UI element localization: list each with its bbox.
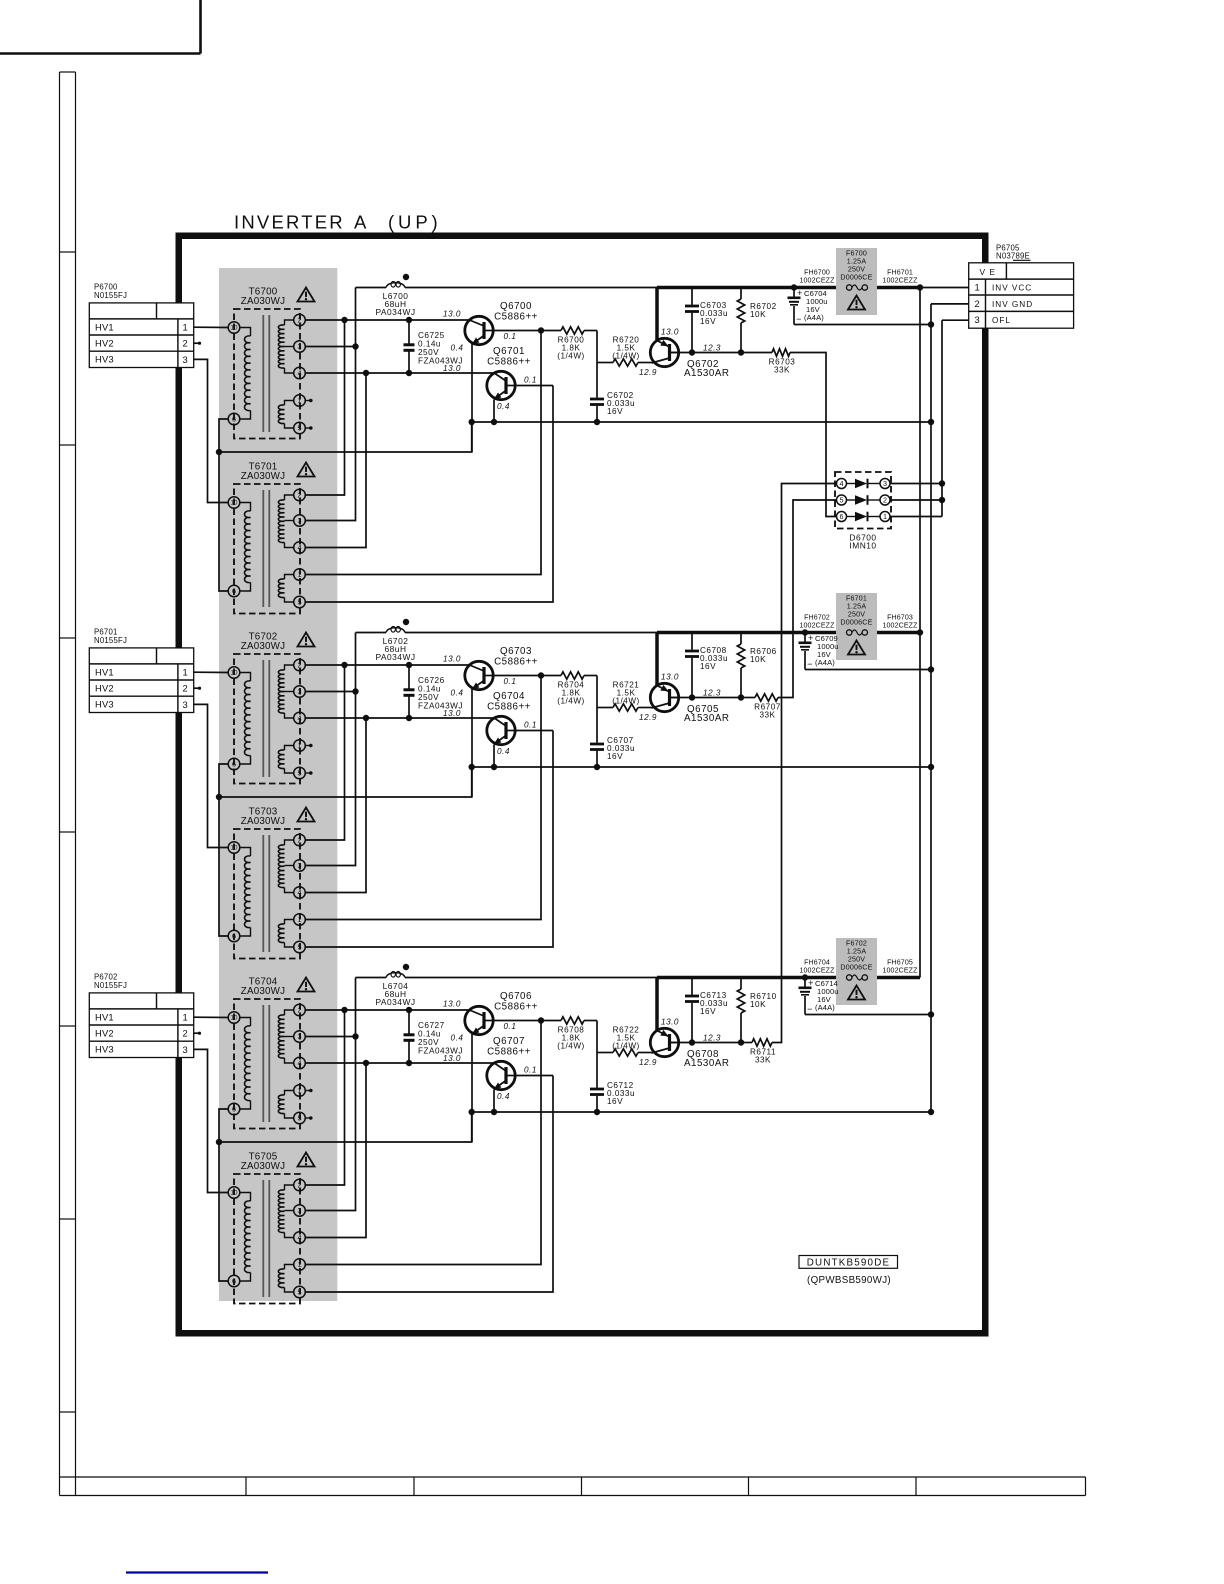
- wire R6707 to D6700.5: [778, 500, 836, 698]
- svg-text:0.4: 0.4: [497, 747, 510, 756]
- wire VCC rail (thick): [657, 631, 920, 635]
- capacitor C6727 0.14u 250V: [404, 1010, 463, 1063]
- T6702 pin 2: [294, 659, 306, 671]
- svg-text:2: 2: [298, 491, 302, 500]
- svg-text:C5886++: C5886++: [494, 1002, 538, 1013]
- wire return row to emitter bus: [219, 1112, 472, 1142]
- svg-text:4: 4: [298, 369, 302, 378]
- D6700 pin 6: [837, 512, 847, 522]
- junction: [406, 715, 412, 721]
- corner reference box (top-left): [0, 0, 201, 54]
- warning symbol near T6702: [298, 633, 315, 647]
- svg-text:1002CEZZ: 1002CEZZ: [882, 967, 918, 975]
- T6702 pin 5: [294, 767, 306, 779]
- wire L6702 input: [356, 632, 387, 634]
- wire T6703.3 riser / L6702 feed: [305, 633, 356, 866]
- svg-text:1: 1: [883, 512, 887, 521]
- svg-text:ZA030WJ: ZA030WJ: [241, 296, 285, 307]
- capacitor C6708 0.033u 16V: [685, 633, 728, 698]
- resistor R6711 33K: [741, 1039, 776, 1065]
- junction: [363, 370, 369, 376]
- T6702 pin 1 stub: [305, 744, 313, 748]
- svg-text:D0006CE: D0006CE: [840, 619, 872, 627]
- transformer T6703 ZA030WJ: [234, 807, 300, 959]
- T6704 pin 5 stub: [305, 1116, 313, 1120]
- wire T6702.6 / T6703.6 common return: [219, 764, 229, 936]
- svg-text:(QPWBSB590WJ): (QPWBSB590WJ): [807, 1275, 891, 1286]
- node dot above inductor: [403, 964, 409, 970]
- svg-text:0.1: 0.1: [504, 677, 517, 686]
- P6700 row HV3 pin 3: [95, 354, 188, 365]
- svg-text:3: 3: [183, 1044, 189, 1055]
- T6704 pin 10: [228, 1012, 240, 1024]
- capacitor C6707 0.033u 16V: [590, 708, 635, 768]
- svg-text:16V: 16V: [607, 1097, 623, 1106]
- T6703 pin 5: [294, 941, 306, 953]
- junction: [363, 715, 369, 721]
- wire T6705.3 riser / L6704 feed: [305, 978, 356, 1211]
- svg-text:3: 3: [298, 687, 302, 696]
- wire pin4 row (T6702.4 to Q6704 base): [305, 717, 494, 719]
- svg-text:HV2: HV2: [95, 1028, 114, 1039]
- wire R6711 to D6700.4: [772, 484, 836, 1043]
- capacitor C6709 1000u 16V (A4A): [799, 633, 839, 670]
- svg-text:V E: V E: [980, 267, 997, 277]
- svg-text:2: 2: [183, 338, 189, 349]
- junction: [928, 321, 934, 327]
- wire VCC rail (thick): [657, 286, 920, 290]
- wire C6709 negative to GND rail: [805, 669, 931, 671]
- junction: [802, 974, 808, 980]
- transistor Q6700 C5886++: [465, 301, 538, 345]
- svg-text:4: 4: [298, 714, 302, 723]
- svg-text:ZA030WJ: ZA030WJ: [241, 1161, 285, 1172]
- wire D6700.1 to OFL rail: [890, 516, 942, 518]
- wire Q6707 emitter to bus: [493, 1090, 495, 1113]
- fuse holder FH6701 1002CEZZ: [882, 269, 918, 285]
- svg-text:13.0: 13.0: [661, 673, 679, 682]
- svg-text:12.9: 12.9: [639, 1058, 657, 1067]
- T6702 pin 5 stub: [305, 771, 313, 775]
- T6700 pin 2: [294, 314, 306, 326]
- T6700 pin 4: [294, 367, 306, 379]
- fuse F6701 1.25A 250V D0006CE: [836, 593, 877, 660]
- svg-text:2: 2: [883, 496, 887, 505]
- svg-text:HV3: HV3: [95, 354, 114, 365]
- D6700 pin 5: [837, 495, 847, 505]
- svg-text:(UP): (UP): [388, 212, 442, 233]
- T6703 core: [263, 835, 269, 952]
- wire VCC rail (thick): [657, 976, 920, 980]
- svg-text:10: 10: [231, 1190, 238, 1197]
- wire OFL rail: [941, 320, 943, 516]
- svg-text:2: 2: [974, 298, 980, 309]
- T6701 pin 1: [294, 569, 306, 581]
- T6705 pin 10: [228, 1187, 240, 1199]
- T6702 core: [263, 660, 269, 777]
- junction: [352, 688, 358, 694]
- svg-text:16V: 16V: [607, 407, 623, 416]
- resistor R6710 10K: [737, 978, 776, 1043]
- svg-text:HV1: HV1: [95, 321, 114, 332]
- junction: [689, 349, 695, 355]
- fuse holder FH6702 1002CEZZ: [799, 614, 835, 630]
- svg-text:1: 1: [298, 915, 302, 924]
- T6704 pin 2: [294, 1004, 306, 1016]
- wire Q6703 emitter to bus: [471, 689, 473, 797]
- svg-text:10K: 10K: [750, 655, 766, 664]
- wire Q6705 base row: [670, 697, 742, 699]
- svg-text:FH6700: FH6700: [804, 269, 830, 277]
- wire INV VCC rail feeding all stages: [919, 288, 921, 978]
- svg-text:5: 5: [298, 1288, 302, 1297]
- svg-text:HV2: HV2: [95, 338, 114, 349]
- svg-text:ZA030WJ: ZA030WJ: [241, 816, 285, 827]
- left margin zone ruler: [60, 72, 76, 1496]
- wire T6705.5 to Q6707 collector: [305, 1076, 553, 1293]
- svg-text:12.9: 12.9: [639, 368, 657, 377]
- wire OFL to P6705.3: [942, 319, 969, 321]
- transformer T6701 ZA030WJ: [234, 462, 300, 614]
- svg-text:Q6703: Q6703: [500, 646, 532, 657]
- T6705 aux winding (pins 1-5): [278, 1265, 293, 1293]
- junction: [594, 764, 600, 770]
- svg-text:(A4A): (A4A): [815, 658, 835, 667]
- T6700 pin 1: [294, 395, 306, 407]
- junction: [469, 1109, 475, 1115]
- T6704 aux winding (pins 1-5): [278, 1091, 293, 1119]
- wire R6703 to D6700.6: [790, 353, 836, 517]
- svg-text:−: −: [807, 1004, 813, 1014]
- svg-text:1002CEZZ: 1002CEZZ: [799, 967, 835, 975]
- svg-text:0.1: 0.1: [504, 1022, 517, 1031]
- wire R6704 to R6721 node: [596, 676, 598, 708]
- wire L6704 output to VCC rail: [405, 977, 657, 979]
- svg-text:0.1: 0.1: [524, 721, 537, 730]
- warning symbol near T6701: [298, 463, 315, 477]
- wire D6700.2 to OFL rail: [890, 499, 942, 501]
- svg-text:10: 10: [231, 325, 238, 332]
- svg-text:1: 1: [298, 396, 302, 405]
- inductor L6702 68uH PA034WJ: [375, 627, 415, 663]
- T6705 pin 5: [294, 1286, 306, 1298]
- T6701 pin 4: [294, 542, 306, 554]
- resistor R6720 1.5K (1/4W): [597, 336, 652, 367]
- wire T6705.1 to Q6706 collector: [305, 1021, 541, 1265]
- T6700 pin 3: [294, 341, 306, 353]
- bottom title-block strip: [60, 1477, 1086, 1496]
- svg-text:10: 10: [231, 1015, 238, 1022]
- node dot above inductor: [403, 619, 409, 625]
- wire P6701.1 HV1 to T6702.10: [194, 671, 229, 673]
- T6703 primary winding: [239, 848, 250, 937]
- junction: [216, 794, 222, 800]
- node dot above inductor: [403, 274, 409, 280]
- svg-text:3: 3: [183, 699, 189, 710]
- junction: [917, 629, 923, 635]
- D6700 pin 3: [880, 479, 890, 489]
- svg-text:13.0: 13.0: [443, 709, 461, 718]
- svg-text:Q6704: Q6704: [493, 691, 525, 702]
- svg-text:1: 1: [298, 1260, 302, 1269]
- transformer T6705 ZA030WJ: [234, 1152, 300, 1304]
- junction: [491, 1109, 497, 1115]
- wire INV GND to P6705.2: [931, 303, 969, 305]
- wire P6702.1 HV1 to T6704.10: [194, 1016, 229, 1018]
- warning symbol near F6700: [848, 296, 865, 310]
- T6705 secondary winding (pins 2-3-4): [278, 1185, 293, 1238]
- svg-text:F6700: F6700: [846, 250, 867, 258]
- junction: [928, 1011, 934, 1017]
- wire emitter/GND bus: [472, 766, 931, 768]
- svg-text:C5886++: C5886++: [487, 702, 531, 713]
- junction: [406, 317, 412, 323]
- warning symbol near T6704: [298, 978, 315, 992]
- svg-text:Q6706: Q6706: [500, 991, 532, 1002]
- wire Q6706 emitter to bus: [471, 1034, 473, 1142]
- junction: [538, 1017, 544, 1023]
- T6705 pin 2: [294, 1179, 306, 1191]
- D6700 pin 1: [880, 512, 890, 522]
- wire R6708 to R6722 node: [596, 1021, 598, 1053]
- svg-text:5: 5: [298, 943, 302, 952]
- wire T6705.4 riser: [305, 1063, 366, 1238]
- fuse holder FH6704 1002CEZZ: [799, 959, 835, 975]
- svg-text:13.0: 13.0: [443, 1054, 461, 1063]
- svg-text:12.3: 12.3: [703, 1034, 721, 1043]
- T6700 pin 5: [294, 422, 306, 434]
- wire Q6704 collector: [515, 730, 553, 732]
- svg-text:10: 10: [231, 845, 238, 852]
- svg-text:2: 2: [298, 661, 302, 670]
- wire pin3 row (T6702.3 to L6702): [305, 691, 356, 693]
- svg-text:HV1: HV1: [95, 666, 114, 677]
- blue footer underline: [126, 1571, 268, 1573]
- svg-text:Q6701: Q6701: [493, 346, 525, 357]
- svg-text:DUNTKB590DE: DUNTKB590DE: [807, 1258, 890, 1269]
- svg-text:A1530AR: A1530AR: [684, 368, 729, 379]
- T6700 core: [263, 315, 269, 432]
- T6701 secondary winding (pins 2-3-4): [278, 495, 293, 548]
- transistor Q6701 C5886++: [487, 346, 531, 400]
- connector P6701 N0155FJ: [89, 627, 193, 712]
- svg-text:4: 4: [298, 888, 302, 897]
- wire Q6701 emitter to bus: [493, 400, 495, 423]
- T6702 secondary winding (pins 2-3-4): [278, 665, 293, 718]
- svg-text:1002CEZZ: 1002CEZZ: [882, 622, 918, 630]
- wire T6703.5 to Q6704 collector: [305, 731, 553, 948]
- T6704 pin 6: [228, 1103, 240, 1115]
- capacitor C6726 0.14u 250V: [404, 665, 463, 718]
- resistor R6703 33K: [741, 349, 795, 375]
- T6703 secondary winding (pins 2-3-4): [278, 840, 293, 893]
- svg-text:6: 6: [232, 415, 236, 424]
- wire Q6706 collector row: [493, 1020, 561, 1022]
- T6701 pin 3: [294, 515, 306, 527]
- wire T6701.5 to Q6701 collector: [305, 386, 553, 603]
- transistor Q6703 C5886++: [465, 646, 538, 690]
- P6702 row HV1 pin 1: [95, 1011, 188, 1022]
- wire emitter/GND bus: [472, 421, 931, 423]
- svg-text:13.0: 13.0: [443, 1000, 461, 1009]
- svg-text:16V: 16V: [700, 317, 716, 326]
- capacitor C6714 1000u 16V (A4A): [799, 978, 839, 1015]
- svg-text:(1/4W): (1/4W): [557, 697, 585, 706]
- D6700 diode 3: [847, 512, 881, 522]
- junction: [406, 370, 412, 376]
- wire T6701.3 riser / L6700 feed: [305, 288, 356, 521]
- svg-text:3: 3: [298, 516, 302, 525]
- wire T6701.1 to Q6700 collector: [305, 331, 541, 575]
- P6702 row HV3 pin 3: [95, 1044, 188, 1055]
- T6705 core: [263, 1180, 269, 1297]
- T6703 pin 4: [294, 887, 306, 899]
- resistor R6704 1.8K (1/4W): [557, 672, 597, 706]
- svg-text:(A4A): (A4A): [815, 1003, 835, 1012]
- wire pin2 row (T6700.2 to Q6700 base): [305, 319, 469, 321]
- junction: [791, 284, 797, 290]
- svg-text:6: 6: [232, 587, 236, 596]
- junction: [406, 1060, 412, 1066]
- P6705 row 2 INV GND: [974, 298, 1033, 309]
- svg-text:6: 6: [840, 512, 844, 521]
- svg-text:6: 6: [232, 760, 236, 769]
- svg-text:FH6701: FH6701: [887, 269, 913, 277]
- T6701 primary winding: [239, 503, 250, 592]
- svg-text:N0155FJ: N0155FJ: [94, 291, 127, 300]
- wire INV GND rail: [930, 304, 932, 1112]
- T6701 core: [263, 490, 269, 607]
- svg-text:2: 2: [298, 1006, 302, 1015]
- wire D6700.3 to OFL rail: [890, 483, 942, 485]
- D6700 diode 2: [847, 495, 881, 505]
- connector P6705 N03789E: [969, 244, 1074, 329]
- svg-text:12.9: 12.9: [639, 713, 657, 722]
- svg-text:0.4: 0.4: [497, 402, 510, 411]
- svg-text:F6702: F6702: [846, 940, 867, 948]
- svg-text:HV2: HV2: [95, 683, 114, 694]
- diode array D6700 IMN10: [835, 472, 891, 551]
- wire T6703.4 riser: [305, 718, 366, 893]
- svg-text:N03789E: N03789E: [996, 252, 1030, 261]
- wire C6704 negative to GND rail: [794, 324, 931, 326]
- wire Q6700 emitter to bus: [471, 344, 473, 452]
- junction: [406, 1007, 412, 1013]
- svg-text:0.4: 0.4: [451, 1034, 464, 1043]
- svg-text:A: A: [354, 212, 369, 233]
- wire P6701.3 HV3 to T6703.10: [194, 704, 229, 847]
- wire Q6702 base row: [670, 352, 742, 354]
- svg-text:3: 3: [298, 1206, 302, 1215]
- T6705 pin 1: [294, 1259, 306, 1271]
- junction: [216, 449, 222, 455]
- wire pin3 row (T6704.3 to L6704): [305, 1036, 356, 1038]
- T6703 pin 2: [294, 834, 306, 846]
- wire pin2 row (T6704.2 to Q6706 base): [305, 1009, 469, 1011]
- wire T6703.1 to Q6703 collector: [305, 676, 541, 920]
- wire pin4 row (T6704.4 to Q6707 base): [305, 1062, 494, 1064]
- svg-text:3: 3: [298, 342, 302, 351]
- svg-text:(A4A): (A4A): [804, 313, 824, 322]
- wire return row to emitter bus: [219, 767, 472, 797]
- svg-text:5: 5: [298, 1114, 302, 1123]
- fuse F6702 1.25A 250V D0006CE: [836, 938, 877, 1005]
- D6700 pin 2: [880, 495, 890, 505]
- junction: [928, 764, 934, 770]
- svg-text:0.4: 0.4: [451, 344, 464, 353]
- svg-text:13.0: 13.0: [443, 310, 461, 319]
- svg-text:2: 2: [298, 836, 302, 845]
- wire Q6708 emitter to VCC bus (thick): [655, 978, 659, 1031]
- junction: [352, 343, 358, 349]
- resistor R6700 1.8K (1/4W): [557, 327, 597, 361]
- svg-text:ZA030WJ: ZA030WJ: [241, 641, 285, 652]
- svg-text:3: 3: [183, 354, 189, 365]
- wire Q6703 collector row: [493, 675, 561, 677]
- svg-text:6: 6: [232, 932, 236, 941]
- junction: [538, 327, 544, 333]
- svg-text:INVERTER: INVERTER: [234, 212, 345, 233]
- svg-text:2: 2: [183, 683, 189, 694]
- svg-text:INV GND: INV GND: [992, 300, 1033, 309]
- T6704 pin 3: [294, 1031, 306, 1043]
- warning symbol near T6700: [298, 288, 315, 302]
- svg-text:FH6703: FH6703: [887, 614, 913, 622]
- transistor Q6702 A1530AR: [650, 338, 729, 379]
- wire Q6705 emitter to VCC bus (thick): [655, 633, 659, 686]
- svg-text:13.0: 13.0: [443, 655, 461, 664]
- wire L6704 input: [356, 977, 387, 979]
- capacitor C6702 0.033u 16V: [590, 363, 635, 423]
- D6700 diode 1: [847, 479, 881, 489]
- wire pin4 row (T6700.4 to Q6701 base): [305, 372, 494, 374]
- svg-text:N0155FJ: N0155FJ: [94, 981, 127, 990]
- svg-text:4: 4: [840, 479, 844, 488]
- svg-text:IMN10: IMN10: [849, 541, 876, 551]
- svg-text:D0006CE: D0006CE: [840, 964, 872, 972]
- svg-text:C5886++: C5886++: [487, 1047, 531, 1058]
- svg-text:+: +: [808, 978, 814, 988]
- wire P6700.2 HV2 stub: [194, 342, 201, 345]
- board name DUNTKB590DE: [799, 1256, 898, 1269]
- svg-text:0.1: 0.1: [524, 376, 537, 385]
- svg-text:(1/4W): (1/4W): [612, 352, 640, 361]
- wire T6704.6 / T6705.6 common return: [219, 1109, 229, 1281]
- resistor R6702 10K: [737, 288, 776, 353]
- warning symbol near F6702: [848, 986, 865, 1000]
- junction: [802, 629, 808, 635]
- T6704 secondary winding (pins 2-3-4): [278, 1010, 293, 1063]
- svg-text:HV1: HV1: [95, 1011, 114, 1022]
- T6702 pin 3: [294, 686, 306, 698]
- T6701 pin 5: [294, 596, 306, 608]
- svg-text:4: 4: [298, 1233, 302, 1242]
- fuse holder FH6705 1002CEZZ: [882, 959, 918, 975]
- svg-text:FH6704: FH6704: [804, 959, 830, 967]
- svg-text:250V: 250V: [848, 611, 865, 619]
- junction: [738, 349, 744, 355]
- fuse holder FH6700 1002CEZZ: [799, 269, 835, 285]
- P6701 row HV3 pin 3: [95, 699, 188, 710]
- wire Q6702 emitter to VCC bus (thick): [655, 288, 659, 341]
- T6702 primary winding: [239, 673, 250, 765]
- T6700 pin 1 stub: [305, 399, 313, 403]
- junction: [341, 662, 347, 668]
- svg-text:A1530AR: A1530AR: [684, 1058, 729, 1069]
- svg-text:1: 1: [298, 1086, 302, 1095]
- wire L6700 input: [356, 287, 387, 289]
- junction: [928, 666, 934, 672]
